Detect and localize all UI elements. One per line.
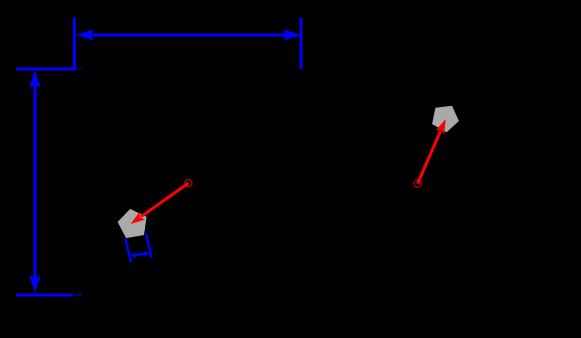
mini dimension: left extension line: [125, 238, 131, 262]
top dimension: dimension line: [90, 34, 287, 37]
target circle 2 (right): [414, 180, 421, 187]
left dimension: bottom extension thin tail: [76, 294, 82, 296]
left dimension: bottom extension line: [16, 294, 73, 297]
top dimension: right extension line: [300, 18, 303, 69]
left dimension: top extension thin tail: [76, 68, 82, 70]
left dimension: top arrowhead: [30, 70, 41, 88]
left dimension: dimension line: [34, 84, 37, 280]
top dimension: left arrowhead: [76, 30, 94, 41]
robot pentagon 2 (right): [432, 106, 459, 133]
red arrow 1: shaft: [141, 183, 189, 217]
top dimension: left extension line: [73, 18, 76, 69]
robot pentagon 1 (left): [118, 209, 147, 238]
red arrow 2: shaft: [418, 131, 441, 184]
mini dimension: dimension line: [136, 254, 145, 255]
target circle 1 (left): [185, 180, 192, 187]
left dimension: top extension line: [16, 68, 76, 71]
mini dimension: left arrowhead: [130, 252, 137, 258]
left dimension: bottom arrowhead: [30, 276, 41, 294]
mini dimension: right extension line: [146, 233, 151, 257]
red arrow 2: head: [436, 119, 446, 134]
mini dimension: right arrowhead: [144, 251, 151, 257]
red arrow 1: head: [131, 212, 146, 224]
top dimension: right arrowhead: [284, 30, 302, 41]
